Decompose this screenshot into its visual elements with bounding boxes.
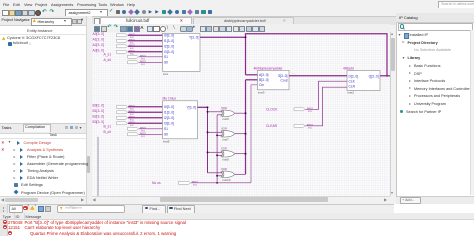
svg-text:B0[3..0]: B0[3..0] <box>92 103 104 107</box>
svg-text:inst2: inst2 <box>347 90 354 94</box>
svg-text:B1[3..0]: B1[3..0] <box>92 109 104 113</box>
tree rows <box>2 37 5 40</box>
input pin B0[3..0] <box>92 103 135 110</box>
wire xor U6 output <box>234 132 245 134</box>
wire B_s1 to mux U2 S1 <box>139 127 162 129</box>
junction node tap1 <box>206 111 208 113</box>
wire stub to xor U6 top input <box>207 131 222 133</box>
svg-text:A0[3..0]: A0[3..0] <box>92 32 104 36</box>
svg-text:B_s1: B_s1 <box>103 124 111 128</box>
svg-text:I3[3..0]: I3[3..0] <box>164 50 174 54</box>
input pin B_s1 <box>103 124 146 132</box>
svg-text:Cout: Cout <box>280 78 287 82</box>
svg-text:VCC: VCC <box>141 64 146 66</box>
wire xor U5 output <box>234 112 245 114</box>
row: Analysis & Synthesis <box>2 147 5 152</box>
schematic svg goes here <box>92 32 390 196</box>
svg-text:No os: No os <box>152 181 161 185</box>
svg-text:CLR: CLR <box>348 84 355 88</box>
wire A0 bus to mux U1 <box>128 34 162 36</box>
svg-text:inst9: inst9 <box>222 157 229 161</box>
mux U1 (inst) <box>162 33 199 76</box>
svg-text:I0[3..0]: I0[3..0] <box>164 105 174 109</box>
svg-text:A_s0: A_s0 <box>103 58 111 62</box>
svg-text:S0: S0 <box>164 60 168 64</box>
input pin CLEAR <box>265 124 313 129</box>
mux U2 (inst5) <box>162 96 197 143</box>
wire stub to xor U5 bottom input <box>217 113 222 115</box>
svg-text:B[3..0]: B[3..0] <box>258 78 268 82</box>
wire stub to xor U7 bottom input <box>217 154 222 156</box>
input pin CLOCK <box>265 107 313 112</box>
junction node nos tap3 <box>216 154 218 156</box>
svg-text:4bitadd: 4bitadd <box>342 66 353 70</box>
row: Assembler <box>14 161 16 166</box>
inactive tab <box>193 17 294 25</box>
wire B2 bus to mux U2 <box>128 116 162 118</box>
bottom add bar <box>396 196 474 205</box>
wire adder B input <box>245 78 257 80</box>
svg-text:I2[3..0]: I2[3..0] <box>164 44 174 48</box>
wire stub to xor U5 top input <box>207 110 222 112</box>
junction node tap2 <box>206 131 208 133</box>
svg-text:VCC: VCC <box>307 111 312 113</box>
svg-text:CLK: CLK <box>348 79 355 83</box>
wire Nos distribution vertical <box>216 114 218 182</box>
input pin B3[3..0] <box>92 120 135 127</box>
row: Compile Design <box>2 140 5 145</box>
svg-text:I1[3..0]: I1[3..0] <box>164 110 174 114</box>
svg-text:B3[3..0]: B3[3..0] <box>92 120 104 124</box>
svg-text:XOR: XOR <box>221 167 227 171</box>
active tab <box>100 17 192 26</box>
xor gate U5 (inst6) <box>220 106 234 121</box>
wire CLEAR to register CLR <box>305 87 346 126</box>
wire B0 bus to mux U2 <box>128 105 162 107</box>
wire Cin riser <box>250 84 256 182</box>
wire vertical bus at x245 lower <box>244 79 246 173</box>
svg-text:Mu 1mux: Mu 1mux <box>162 96 176 100</box>
junction node xor U7 out <box>244 152 246 154</box>
editor h-scrollbar <box>92 196 390 205</box>
svg-text:I0[3..0]: I0[3..0] <box>164 33 174 37</box>
wire stub to xor U7 top input <box>207 151 222 153</box>
junction node tap3 <box>206 151 208 153</box>
svg-text:A3[3..0]: A3[3..0] <box>92 48 104 52</box>
wire adder A input <box>245 73 257 75</box>
svg-text:4bitripplecarryadder: 4bitripplecarryadder <box>253 66 283 70</box>
input pin B1[3..0] <box>92 109 135 116</box>
wire A_s1 to mux U1 S1 <box>139 55 162 57</box>
wire Y2 distribution vertical <box>206 107 208 172</box>
svg-text:CLOCK: CLOCK <box>265 107 277 111</box>
wire vertical bus at x245 upper <box>244 33 246 74</box>
wire mux U2 Y output <box>197 106 207 108</box>
svg-text:VCC: VCC <box>193 184 198 186</box>
svg-text:inst: inst <box>163 72 168 76</box>
input pin A2[3..0] <box>92 43 135 50</box>
adder U3 (inst3) <box>253 66 288 94</box>
wire B3 bus to mux U2 <box>128 122 162 124</box>
wire B_s0 to mux U2 S0 <box>139 133 162 135</box>
tasks h-scrollbar <box>0 196 86 205</box>
wire register Q output <box>379 74 392 76</box>
filter box <box>57 205 125 214</box>
svg-text:S0: S0 <box>164 132 168 136</box>
junction node xor U5 out <box>244 112 246 114</box>
svg-text:inst7: inst7 <box>222 137 229 141</box>
svg-text:A_s1: A_s1 <box>103 52 111 56</box>
xor gate U7 (inst9) <box>220 146 234 161</box>
combo assignment2 <box>65 9 108 17</box>
svg-text:inst3: inst3 <box>257 90 264 94</box>
toolbar right icons <box>109 9 113 14</box>
wire xor U7 output <box>234 152 245 154</box>
wire B1 bus to mux U2 <box>128 111 162 113</box>
sheet border <box>97 136 99 195</box>
register U4 (inst2) <box>342 66 379 94</box>
svg-text:inst10: inst10 <box>222 178 230 182</box>
wire feedback bus top <box>244 33 386 75</box>
svg-text:I1[3..0]: I1[3..0] <box>164 39 174 43</box>
junction node nos tap4 <box>216 175 218 177</box>
svg-text:B2[3..0]: B2[3..0] <box>92 114 104 118</box>
editor v-scrollbar <box>390 32 397 196</box>
ip v scroll strip <box>470 30 474 195</box>
wire Nos horizontal <box>191 181 251 183</box>
row: Timing Analysis <box>14 168 16 173</box>
input pin B_s0 <box>103 130 146 138</box>
messages header <box>0 213 474 220</box>
svg-text:S[3..0]: S[3..0] <box>277 74 287 78</box>
svg-text:Cin: Cin <box>258 83 263 87</box>
svg-text:XOR: XOR <box>221 126 227 130</box>
wire A_s0 to mux U1 S0 <box>139 61 162 63</box>
svg-text:A1[3..0]: A1[3..0] <box>92 37 104 41</box>
wire stub to xor U6 bottom input <box>217 134 222 136</box>
junction node xor U6 out <box>244 132 246 134</box>
svg-text:XOR: XOR <box>221 146 227 150</box>
messages rows <box>0 0 1 1</box>
wire CLOCK to register CLK <box>305 81 346 109</box>
svg-text:Q[3..0]: Q[3..0] <box>368 74 378 78</box>
svg-text:I2[3..0]: I2[3..0] <box>164 116 174 120</box>
xor gate U8 (inst10) <box>220 167 234 182</box>
svg-text:Y[3..0]: Y[3..0] <box>186 105 196 109</box>
junction node Y-bus <box>244 36 246 38</box>
find buttons <box>142 205 166 214</box>
svg-text:CLEAR: CLEAR <box>265 124 277 128</box>
svg-text:XOR: XOR <box>221 106 227 110</box>
wire stub to xor U8 top input <box>207 171 222 173</box>
net label marks <box>291 72 296 75</box>
wire A3 bus to mux U1 <box>128 50 162 52</box>
row: EDA Netlist Writer <box>14 175 16 180</box>
junction node nos base <box>216 182 218 184</box>
wire A1 bus to mux U1 <box>128 39 162 41</box>
input pin A3[3..0] <box>92 48 135 55</box>
input pin A1[3..0] <box>92 37 135 44</box>
junction node Y2 elbow <box>206 106 208 108</box>
input pin A_s1 <box>103 52 146 60</box>
wire xor U8 output <box>234 173 245 175</box>
wire adder S to register D <box>288 74 346 76</box>
svg-text:S1: S1 <box>164 127 168 131</box>
input pin Nos <box>152 181 199 187</box>
wire stub to xor U8 bottom input <box>217 174 222 176</box>
svg-text:S1: S1 <box>164 55 168 59</box>
wire A2 bus to mux U1 <box>128 45 162 47</box>
svg-text:VCC: VCC <box>129 125 134 127</box>
input pin A_s0 <box>103 58 146 66</box>
svg-text:VCC: VCC <box>141 136 146 138</box>
row: Fitter <box>14 154 16 159</box>
svg-text:I3[3..0]: I3[3..0] <box>164 121 174 125</box>
svg-text:A2[3..0]: A2[3..0] <box>92 43 104 47</box>
junction node nos tap2 <box>216 134 218 136</box>
svg-text:Y[3..0]: Y[3..0] <box>189 35 199 39</box>
row: Program Device <box>13 190 18 195</box>
wire mux U1 Y output bus <box>200 36 245 38</box>
svg-text:VCC: VCC <box>307 127 312 129</box>
input pin A0[3..0] <box>92 32 135 39</box>
svg-text:A[3..0]: A[3..0] <box>258 73 268 77</box>
input pin B2[3..0] <box>92 114 135 121</box>
xor gate U6 (inst7) <box>220 126 234 141</box>
row: Edit Settings <box>14 183 18 187</box>
svg-text:inst5: inst5 <box>163 139 170 143</box>
svg-text:B_s0: B_s0 <box>103 130 111 134</box>
svg-text:D[3..0]: D[3..0] <box>348 74 358 78</box>
junction node Q feedback <box>386 75 388 77</box>
svg-text:- -→: - -→ <box>291 72 296 75</box>
svg-text:inst6: inst6 <box>222 117 229 121</box>
